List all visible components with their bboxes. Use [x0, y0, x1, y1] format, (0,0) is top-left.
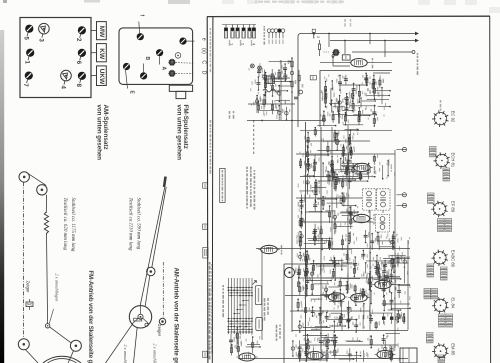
switch wiring [229, 326, 261, 356]
bus wire h3 [300, 176, 358, 178]
socket values 6a [427, 333, 434, 343]
bus wire 3 [352, 51, 412, 53]
bus drop 3 [369, 34, 371, 45]
bus drop 2 [344, 41, 346, 55]
bus wire v0 [331, 127, 333, 250]
wire seg f3 [320, 62, 351, 64]
switch note text [264, 298, 266, 321]
coil screw 4 (trimmer) [60, 70, 72, 89]
border legend box [203, 248, 208, 259]
margin text band [255, 1, 344, 3]
AM drum spoke 1 [140, 306, 142, 314]
bus wire h4 [296, 197, 362, 199]
coil screw 6 [75, 49, 86, 65]
tube V9 bottom-mid [305, 352, 326, 360]
svg-text:von unten gesehen: von unten gesehen [96, 105, 103, 161]
component box osc [342, 55, 350, 60]
bus wire h10 [292, 330, 408, 332]
wire seg f1 [319, 40, 321, 44]
FM trimmer C [168, 59, 175, 66]
tone network [363, 253, 400, 285]
cord right run upper [45, 195, 47, 213]
chassis terminal 2 [402, 193, 406, 197]
banana jack 4 [278, 29, 282, 33]
bus wire v3 [394, 150, 396, 348]
switch labels [222, 285, 224, 317]
svg-text:A: A [160, 67, 166, 71]
tube V10 bottom-right [375, 351, 396, 359]
dashed core line [324, 51, 330, 53]
bus drop 1 [328, 34, 330, 48]
sheet right border [489, 16, 492, 363]
mixer stage network [296, 125, 359, 251]
socket values 4a [427, 264, 434, 277]
IF transformer 1 [363, 189, 376, 210]
tube V1 (EC92 oscillator) [348, 59, 369, 67]
svg-text:B: B [144, 57, 150, 61]
svg-text:AM-Antrieb von der Skalenseite: AM-Antrieb von der Skalenseite ges [173, 268, 180, 363]
svg-text:von unten gesehen: von unten gesehen [176, 105, 183, 161]
svg-text:Zeiger: Zeiger [157, 324, 162, 337]
aerial plug 6 [252, 28, 256, 31]
AM cord turnbuckle [163, 176, 167, 187]
tube label V4 [281, 245, 282, 255]
svg-text:FM-Antrieb von der Skalenseite: FM-Antrieb von der Skalenseite ges [87, 271, 94, 363]
bus wire v2 [369, 210, 371, 330]
AM cord out left [106, 324, 133, 363]
sheet left border outer [206, 17, 209, 363]
bus wire v6 [261, 250, 263, 340]
bus wire h2 [296, 153, 395, 155]
note text small [229, 111, 231, 119]
antenna label text [417, 53, 419, 75]
tube V6 (EL84 right) [348, 294, 369, 302]
aerial plug 2 [231, 28, 235, 31]
tube V3 (EF89 IF) [351, 214, 372, 222]
AM tuning drum rim [129, 306, 151, 328]
FM bracket bar [169, 85, 192, 91]
socket note top [440, 100, 442, 111]
svg-text:KW: KW [98, 48, 105, 60]
bus wire v4 [407, 240, 409, 330]
FM unit enclosure left [297, 37, 299, 128]
bus junction [313, 32, 315, 34]
bus arrow 2 [415, 39, 419, 43]
tube label V2 [374, 163, 375, 174]
IF stage network [328, 155, 395, 184]
coil L2 [263, 89, 279, 92]
banana jack 1 [267, 29, 271, 33]
svg-text:Textilseil ca.1110 mm lang: Textilseil ca.1110 mm lang [128, 198, 133, 251]
wire MW [91, 30, 97, 32]
FM tuning drum arc inner [48, 359, 77, 363]
svg-text:EF 89: EF 89 [451, 201, 456, 213]
tube V5 (EL84 left) [326, 293, 347, 301]
tension spring [44, 212, 48, 234]
tube socket diagram EC 92 [432, 110, 448, 127]
bus wire 1 [301, 33, 416, 35]
FM core (x) [175, 53, 181, 59]
FM screw B [140, 72, 147, 79]
coil screw 7 [22, 72, 33, 88]
terminal note text [264, 26, 266, 45]
test point TP1 [250, 64, 254, 68]
IF transformer 3 [376, 215, 390, 233]
AM cord long run 2 [152, 187, 166, 268]
banana jack 2 [271, 29, 275, 33]
AM idler pulley [159, 318, 165, 324]
aerial plug 5 [248, 28, 252, 31]
FM tuning drum arc outer [43, 356, 81, 363]
wire FM mid [248, 103, 295, 105]
audio driver network [360, 250, 411, 331]
notes text block [246, 167, 248, 209]
band box MW [97, 22, 107, 40]
AM pointer track [162, 262, 164, 318]
sheet top border [207, 15, 490, 17]
scan smudge top [84, 0, 100, 3]
coil screw 2 [75, 26, 86, 42]
hatched coupler box [266, 76, 275, 84]
svg-text:ECH 81: ECH 81 [451, 153, 456, 168]
svg-text:Stahlseil ca. 1175 mm lang: Stahlseil ca. 1175 mm lang [70, 198, 75, 252]
tube socket diagram EM 85 [432, 343, 448, 360]
svg-text:2 x umschl: 2 x umschl [123, 345, 128, 363]
tube socket diagram EL 84 [432, 297, 448, 314]
chassis terminal 3 [402, 203, 406, 207]
svg-text:UKW: UKW [98, 69, 105, 86]
cord into drum left [26, 350, 39, 363]
socket values 2a [430, 147, 437, 157]
AM cord pulley-drum [145, 276, 150, 307]
FM drive pulley 3 [18, 339, 29, 350]
AM coil set outline [20, 18, 91, 98]
svg-text:D: D [201, 71, 207, 75]
wire UKW [91, 75, 97, 77]
socket values 3a [428, 193, 435, 203]
bus drop 4 [384, 41, 386, 58]
cord to lower pulley [50, 327, 72, 343]
FM screw A [156, 49, 163, 56]
FM unit box [320, 71, 392, 128]
wire seg f2 [332, 56, 334, 66]
coil screw 5 [23, 25, 34, 41]
FM input stage network [248, 60, 290, 120]
bus wire h11 [300, 344, 398, 346]
output stage network [291, 333, 400, 363]
boxed legend [220, 168, 225, 202]
FM screw E [123, 63, 130, 70]
margin smudge [418, 0, 430, 5]
wire seg f4 [367, 62, 392, 64]
bus wire h0 [300, 130, 392, 132]
bus wire h9 [290, 310, 370, 312]
tube socket diagram EF 89 [431, 201, 447, 218]
aerial plug 3 [236, 28, 240, 31]
coil screw 3 (trimmer) [38, 23, 50, 42]
border text run 3 [210, 28, 211, 72]
wire FM bottom [247, 120, 322, 122]
switch tag box 2 [256, 318, 263, 331]
FM input chain [291, 61, 293, 67]
resistor R1 [318, 44, 320, 50]
svg-text:e: e [201, 38, 207, 41]
FM IF amplifier network [320, 73, 391, 127]
scan mark top-left [3, 0, 7, 3]
cord pulley1-pulley2 [26, 172, 46, 185]
FM trimmer D [168, 70, 175, 77]
socket values 3b [438, 219, 445, 232]
wire KW [91, 52, 97, 54]
cord into drum right [68, 351, 74, 363]
fold mark b [203, 224, 208, 229]
socket values 6b [438, 355, 445, 363]
bus wire v1 [347, 125, 349, 293]
cord left run [23, 182, 25, 339]
wave band switch contact grid [228, 278, 257, 334]
band box KW [97, 44, 107, 62]
FM bracket stem [180, 83, 182, 86]
bus wire v5 [280, 60, 282, 120]
coil screw 8 [75, 72, 86, 88]
svg-text:EM 85: EM 85 [451, 343, 456, 356]
tube label V3 [373, 214, 374, 224]
cap trimmer osc [332, 49, 339, 56]
tube V8 bottom-left [237, 353, 258, 361]
switch note text 2 [276, 325, 278, 341]
bus wire h7 [298, 277, 400, 279]
border text run 2 [210, 120, 212, 174]
IF stage network 2 [364, 230, 410, 250]
label box 10 [310, 76, 316, 80]
margin smudge [444, 0, 456, 5]
FM screw f [137, 33, 144, 40]
bus arrow 1 [415, 32, 419, 36]
tube label V7 [395, 280, 396, 290]
margin smudge [305, 0, 317, 4]
svg-text:Stahlseil ca. 590 mm lang: Stahlseil ca. 590 mm lang [136, 198, 141, 250]
FM coil set outline [119, 28, 193, 85]
electrolytic C1 [382, 317, 385, 320]
FM screw e [179, 38, 186, 45]
FM drive pulley 4 [70, 340, 81, 351]
socket values 5a [424, 289, 431, 299]
svg-text:EL 84: EL 84 [451, 297, 456, 308]
switch tag box 1 [255, 286, 261, 305]
AM drum hub [138, 314, 143, 319]
feedback rail [283, 264, 285, 363]
output transformer [285, 268, 295, 278]
sheet left border inner [211, 17, 214, 363]
banana jack 5 [281, 29, 285, 33]
svg-text:Textilseil ca. 620 mm lan: Textilseil ca. 620 mm lang [62, 198, 67, 251]
svg-text:C: C [201, 60, 207, 64]
margin smudge [247, 0, 259, 4]
FM drive pulley 1 [19, 172, 29, 182]
AM drum spoke 3 [143, 318, 149, 324]
FM drive pulley 2 [37, 185, 47, 195]
rail 1 [291, 58, 293, 332]
AM drum cord eyelet [145, 323, 148, 326]
aerial plug 1 [224, 28, 228, 31]
AM drum spoke 2 [132, 318, 138, 324]
tube V2 (ECH81 mixer) [351, 163, 372, 171]
dashed divider [253, 120, 255, 156]
tube V4 (EABC80) [258, 245, 279, 253]
AM cord long run 1 [140, 187, 165, 306]
power box [400, 348, 417, 363]
svg-text:2 x umschlingen: 2 x umschlingen [55, 274, 60, 302]
margin smudge [489, 7, 500, 13]
margin smudge [465, 0, 477, 5]
dipole note [344, 19, 346, 27]
rail 2 [305, 122, 307, 356]
IF transformer 2 [377, 189, 390, 210]
aerial strip tie line [222, 24, 256, 26]
border text run 1 [209, 262, 211, 359]
FM bracket tab [176, 91, 186, 98]
svg-text:2: 2 [316, 36, 320, 38]
fold mark c [203, 351, 208, 357]
bus wire h1 [305, 140, 370, 142]
tube V7 (EM85 indicator) [372, 280, 393, 288]
svg-text:EC 92: EC 92 [451, 111, 456, 123]
cord right run lower [47, 233, 48, 323]
coil screw 1 [24, 49, 35, 65]
aerial plug 4 [242, 28, 246, 31]
svg-text:EABC 80: EABC 80 [451, 250, 456, 268]
banana jack 3 [274, 29, 278, 33]
margin smudge [222, 0, 234, 4]
bus wire 2 [330, 40, 416, 42]
rail 3 [320, 127, 322, 360]
bus wire h8 [285, 295, 330, 297]
tube socket diagram ECH 81 [434, 152, 450, 169]
bus wire h6 [256, 248, 410, 250]
band box UKW [97, 66, 107, 86]
electrolytic C2 [390, 317, 393, 320]
test point TP2 [258, 66, 262, 70]
margin smudge [283, 0, 295, 4]
AM cord out down [134, 327, 138, 363]
bus wire h5 [300, 221, 373, 223]
tube label V1 [372, 58, 373, 68]
socket values 5b [439, 314, 446, 327]
margin smudge [330, 0, 342, 4]
socket values 2b [443, 168, 450, 181]
cord anchor eyelet [45, 324, 49, 328]
svg-text:2 x umschlingen: 2 x umschlingen [153, 344, 158, 363]
tube socket diagram EABC 80 [432, 250, 448, 267]
svg-text:Zeiger: Zeiger [26, 281, 31, 294]
detector network [295, 250, 360, 333]
socket values 4b [441, 267, 448, 280]
chassis terminal 1 [402, 147, 406, 151]
svg-text:MW: MW [98, 26, 105, 38]
fold mark a [203, 183, 208, 188]
bus wire h12 [238, 358, 408, 360]
svg-text:(x): (x) [201, 48, 207, 54]
coil L1 [332, 54, 334, 58]
AM drive pulley [147, 267, 155, 275]
